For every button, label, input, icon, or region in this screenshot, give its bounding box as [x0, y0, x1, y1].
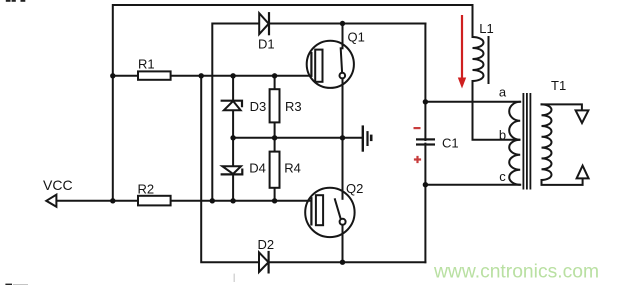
svg-text:R3: R3 — [285, 99, 302, 114]
svg-text:R2: R2 — [138, 181, 155, 196]
svg-text:b: b — [499, 127, 506, 142]
svg-text:D4: D4 — [249, 160, 266, 175]
svg-text:R4: R4 — [284, 160, 301, 175]
svg-text:Q2: Q2 — [346, 181, 363, 196]
svg-text:D1: D1 — [258, 37, 275, 52]
svg-text:C1: C1 — [442, 135, 459, 150]
svg-text:www.cntronics.com: www.cntronics.com — [433, 262, 599, 283]
svg-text:VCC: VCC — [43, 177, 73, 193]
svg-text:D2: D2 — [258, 237, 275, 252]
svg-text:R1: R1 — [138, 56, 155, 71]
svg-text:c: c — [499, 169, 506, 184]
svg-text:Q1: Q1 — [348, 30, 365, 45]
svg-text:a: a — [499, 84, 507, 99]
svg-text:T1: T1 — [551, 78, 566, 93]
svg-text:D3: D3 — [250, 99, 267, 114]
svg-text:L1: L1 — [479, 21, 493, 36]
